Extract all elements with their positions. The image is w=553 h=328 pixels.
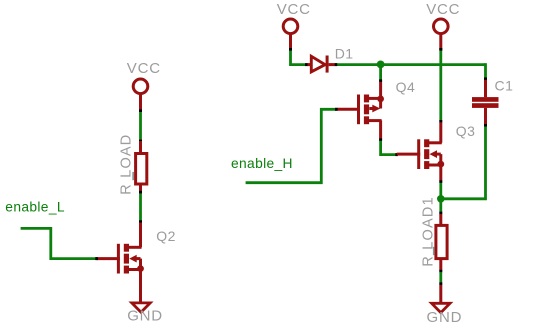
junction mark D1 cathode pin [335, 63, 338, 66]
wire Q3 source to junction [439, 183, 442, 199]
svg-text:Q3: Q3 [456, 123, 476, 139]
label Q2 [156, 228, 176, 244]
svg-text:enable_H: enable_H [231, 156, 293, 171]
diode D1 [308, 56, 336, 73]
wire VCC2 down to Q3 drain [439, 50, 442, 121]
junction mark enable_L gate pin [95, 257, 98, 260]
wire C1 bottom down and to junction [441, 127, 486, 199]
svg-text:GND: GND [127, 307, 163, 324]
transistor Q3 (N-MOSFET) [397, 122, 444, 181]
svg-text:GND: GND [427, 309, 463, 326]
svg-text:VCC: VCC [426, 1, 460, 18]
junction mark Q4 source pin [379, 79, 382, 82]
origin mark R LOAD [132, 172, 134, 180]
origin mark R LOAD1 [433, 247, 435, 255]
junction mark C1 bottom pin [484, 124, 487, 127]
resistor R LOAD1 [436, 214, 447, 271]
junction mark Q3 source pin [439, 180, 442, 183]
svg-text:D1: D1 [335, 45, 354, 61]
svg-text:R LOAD1: R LOAD1 [421, 196, 437, 266]
net label enable_H [231, 156, 293, 171]
svg-text:C1: C1 [495, 77, 514, 93]
junction mark D1 anode pin [305, 63, 308, 66]
wire enable_L to Q2 gate [21, 228, 97, 258]
power symbol VCC (right circuit, right) [426, 1, 460, 50]
junction mark Q3 drain pin [439, 120, 442, 123]
svg-text:R LOAD: R LOAD [119, 134, 135, 195]
capacitor C1 [472, 79, 499, 124]
junction node at Q3 source / R LOAD1 [437, 195, 445, 203]
wire D1 to C1 (top rail) [337, 63, 485, 66]
ground symbol GND (right circuit) [432, 303, 450, 312]
label Q3 [456, 123, 476, 139]
junction mark R LOAD top pin [139, 140, 142, 143]
junction mark GND pin (right) [439, 282, 442, 285]
svg-text:VCC: VCC [277, 1, 311, 18]
junction mark R LOAD bottom pin [139, 191, 142, 194]
wire GND pin stub (right) [439, 285, 442, 304]
svg-text:Q4: Q4 [396, 79, 416, 95]
label R LOAD1 [421, 196, 437, 266]
ground symbol GND (left circuit) [132, 303, 150, 312]
resistor R LOAD [136, 141, 147, 191]
svg-text:Q2: Q2 [156, 228, 176, 244]
label GND (right) [427, 309, 463, 326]
net label enable_L [5, 200, 65, 215]
junction mark VCC1 stub [289, 48, 292, 51]
transistor Q2 (N-MOSFET) [97, 223, 144, 303]
label D1 [335, 45, 354, 61]
junction mark R LOAD1 top pin [439, 212, 442, 215]
wire R LOAD1 to GND [439, 272, 442, 283]
wire C1 top to rail [484, 63, 487, 77]
junction mark Q3 gate pin [395, 153, 398, 156]
transistor Q4 (P-MOSFET) [337, 82, 384, 140]
junction node at D1 cathode / Q4 source [377, 61, 385, 69]
power symbol VCC (right circuit, left) [277, 1, 311, 50]
junction mark VCC2 stub [439, 48, 442, 51]
label GND (left) [127, 307, 163, 324]
svg-text:VCC: VCC [127, 60, 161, 77]
wire R LOAD to Q2 drain [139, 193, 142, 222]
wire junction to R LOAD1 [439, 199, 442, 212]
junction mark Q4 drain pin [379, 138, 382, 141]
junction mark enable_H gate pin [335, 108, 338, 111]
label C1 [495, 77, 514, 93]
wire VCC1 down and to D1 anode [291, 50, 306, 65]
svg-text:enable_L: enable_L [5, 200, 65, 215]
wire Q4 drain to Q3 gate [381, 141, 396, 155]
label Q4 [396, 79, 416, 95]
junction mark R LOAD1 bottom pin [439, 270, 442, 273]
junction mark Q2 drain pin [139, 220, 142, 223]
power symbol VCC (left circuit) [127, 60, 161, 110]
wire VCC to R LOAD [139, 111, 142, 141]
label R LOAD [119, 134, 135, 195]
junction mark C1 top pin [484, 77, 487, 80]
wire enable_H to Q4 gate [246, 109, 336, 182]
wire junction down to Q4 source [379, 65, 382, 81]
junction mark VCC stub [139, 109, 142, 112]
